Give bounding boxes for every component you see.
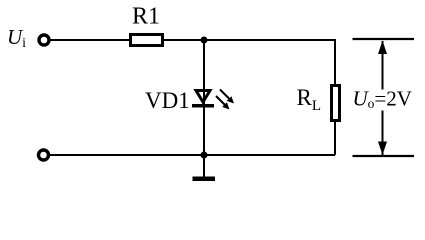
wire LED branch: [203, 40, 205, 155]
measurement bar top: [353, 38, 415, 40]
node top junction: [201, 37, 208, 44]
svg-text:R1: R1: [132, 4, 160, 30]
wire top right: [164, 40, 335, 85]
arrow Uo double: [378, 41, 387, 156]
resistor RL: [332, 86, 340, 121]
LED VD1: [192, 90, 234, 110]
svg-text:Uo=2V: Uo=2V: [353, 87, 412, 112]
terminal input top: [39, 35, 49, 45]
wire bottom: [50, 154, 335, 156]
wire RL bottom: [334, 121, 336, 156]
terminal input bottom: [39, 150, 49, 160]
label Uo=2V: [352, 87, 416, 112]
wire top left: [51, 39, 131, 41]
svg-text:VD1: VD1: [145, 88, 190, 113]
resistor R1: [131, 35, 163, 46]
ground: [193, 155, 216, 181]
measurement bar bottom: [353, 155, 415, 157]
node bottom junction: [201, 152, 208, 159]
